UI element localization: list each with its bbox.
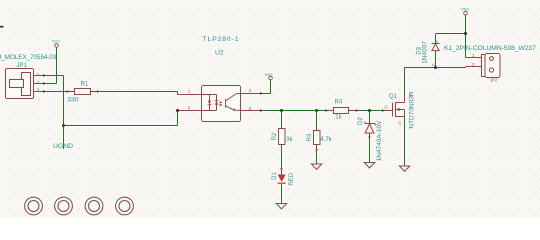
resistor R4 (325, 99, 359, 120)
connector JP1 (6, 69, 46, 99)
svg-text:S: S (398, 120, 401, 125)
svg-text:Q1: Q1 (389, 94, 398, 100)
diode D3 1N4007 (416, 34, 439, 68)
wire opto pin3 bus (263, 110, 385, 112)
JP1 pin numbers (37, 72, 40, 93)
ground (under Q1) (399, 166, 409, 171)
svg-text:VEE: VEE (265, 72, 273, 77)
wire VEE to K1 pin1 (436, 15, 466, 58)
resistor R2 (272, 111, 294, 175)
svg-text:VEE: VEE (461, 6, 469, 11)
node UGND junction (62, 124, 65, 127)
svg-text:1: 1 (37, 72, 40, 77)
svg-text:D2: D2 (358, 117, 364, 125)
ground (under R3) (311, 164, 321, 169)
power VEE (top right) (461, 6, 469, 15)
wire JP1 pin3 to R1 (45, 91, 75, 93)
mounting hole 4 (116, 197, 134, 215)
svg-text:R2: R2 (272, 132, 278, 140)
power VCC (52, 39, 61, 48)
U2 pin 1 (178, 94, 202, 96)
U2 pin 4 (241, 93, 263, 95)
svg-text:G: G (385, 105, 388, 110)
LED D1 (272, 172, 295, 204)
node D2 junction (368, 109, 371, 112)
svg-text:2: 2 (188, 105, 191, 110)
ground (under D2) (364, 163, 374, 168)
svg-text:K1_2PIN-COLUMN-508_W237: K1_2PIN-COLUMN-508_W237 (444, 45, 536, 52)
transistor Q1 NTD70N03R (382, 91, 415, 129)
svg-text:A: A (432, 62, 435, 67)
U2 pin 3 (241, 110, 263, 112)
U2 internal phototransistor (226, 94, 241, 111)
svg-text:J_MOLEX_70554-03: J_MOLEX_70554-03 (0, 54, 57, 61)
JP1 pin arrows (43, 74, 46, 93)
svg-text:R3: R3 (307, 133, 313, 141)
U2 internal LED pair (202, 95, 217, 111)
connector K1 (444, 45, 536, 83)
wire R1 to opto pin1 (91, 92, 178, 95)
svg-text:1N4007: 1N4007 (422, 41, 429, 64)
svg-text:K: K (436, 39, 439, 44)
svg-text:1: 1 (188, 89, 191, 94)
svg-text:D: D (409, 93, 412, 98)
svg-text:R1: R1 (81, 82, 89, 88)
svg-text:RED: RED (289, 172, 295, 185)
wire opto pin4 to VEE (263, 80, 271, 94)
wire JP1 pin1 to UGND stub (45, 76, 64, 150)
mounting hole 2 (55, 197, 73, 215)
svg-text:1k: 1k (335, 115, 342, 121)
svg-text:JP2: JP2 (490, 78, 498, 83)
mounting hole 3 (85, 197, 103, 215)
wire Q1 drain (405, 67, 466, 96)
border frame tick (0, 26, 4, 28)
op-amp U2 optocoupler TLP280-1 (178, 36, 264, 122)
svg-text:2: 2 (37, 80, 40, 85)
svg-text:D1: D1 (272, 172, 278, 180)
svg-text:UGND: UGND (53, 143, 73, 150)
svg-text:4.7k: 4.7k (320, 137, 332, 143)
power VEE (opto collector) (265, 72, 273, 80)
svg-text:TLP280-1: TLP280-1 (203, 36, 239, 43)
svg-text:JP1: JP1 (17, 63, 28, 69)
resistor R3 (307, 111, 333, 165)
U2 pin 2 (178, 110, 202, 112)
wire Q1 source (404, 117, 406, 167)
svg-text:4: 4 (249, 88, 252, 93)
node R2 junction (280, 109, 283, 112)
svg-text:R4: R4 (335, 99, 343, 105)
node R3 junction (315, 109, 318, 112)
diode D2 zener 1N4740A-10V (358, 111, 383, 163)
svg-text:3k: 3k (286, 137, 293, 143)
wire VCC to JP1 pin2 (45, 47, 57, 83)
svg-text:U2: U2 (215, 50, 224, 57)
node pin2 junction (176, 109, 179, 112)
mounting hole 1 (25, 197, 43, 215)
node VEE junction (464, 32, 467, 35)
node D3 drain junction (434, 66, 437, 69)
ground (under D1) (276, 204, 286, 209)
resistor R1 (67, 82, 101, 104)
wire opto pin2 net (64, 111, 178, 126)
svg-text:1N4740A-10V: 1N4740A-10V (376, 120, 383, 161)
svg-text:330: 330 (67, 96, 79, 103)
svg-text:VCC: VCC (52, 39, 61, 44)
